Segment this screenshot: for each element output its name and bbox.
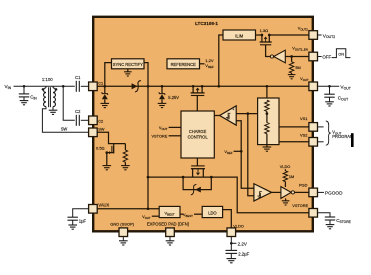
svg-text:PROGRAM: PROGRAM [332,134,354,139]
wire A1 bottom input [236,121,254,189]
net label 1.2V VREF [205,58,214,69]
pin VS2 [309,138,318,147]
ground below SYNC RECTIFY [124,72,132,76]
wire CSTORE to ground [329,220,331,225]
pin GND label [110,221,134,226]
wire VOUT2 pin out [318,34,322,36]
transformer T1 phase dots [42,88,58,91]
transistor Q4 value 0.5ohm [96,145,105,150]
pin C2 [89,116,98,125]
ground below EXPOSED PAD pin [166,241,175,245]
svg-text:C1: C1 [75,75,81,80]
svg-text:1µF: 1µF [79,218,87,223]
wire Q1 gate to charge control [196,96,198,112]
ground below 2.2uF [227,259,237,263]
svg-text:VLDO: VLDO [280,164,291,169]
pin SW [89,128,98,137]
svg-text:C2: C2 [75,109,81,114]
svg-text:CHARGE: CHARGE [189,129,207,134]
wire VIN to C1 cap [14,85,75,87]
transistor Q3 charge switch [191,158,205,177]
net label VOUT2 (outside) [323,33,335,39]
pin VSTORE label [292,203,308,208]
pin EXPOSED PAD (DFN) [166,228,175,237]
transistor Q2 value 1.3ohm [260,28,269,33]
wire VBEST to LDO [194,213,202,215]
wire VOUT input stub [169,126,181,128]
wire divider tap to VS2 pin [279,141,309,143]
net label VLDO pullup [280,164,291,169]
capacitor CSTORE label [336,218,351,224]
svg-text:VS2: VS2 [300,132,307,137]
pin VAUX label [98,203,109,208]
svg-text:OFF: OFF [322,55,331,60]
signal label OFF [322,55,331,60]
pin C1 label [98,81,103,86]
transistor Q2 1.3ohm PMOS [260,34,272,45]
wire C1 cap to C1 pin [81,85,89,87]
net label 2.2V [238,241,247,246]
ground below U3 [282,201,290,205]
wire primary bottom to SW pin [42,107,88,133]
node vaux junction long vertical [147,207,150,210]
resistor R3 label 5M [295,65,300,70]
wire rail to divider [266,86,268,100]
net label VREF [224,149,232,155]
ground below COUT [325,102,334,106]
ground below 5M resistor [288,75,296,79]
node A1 top input junction [246,112,249,115]
capacitor 2.2uF label [238,252,249,257]
node junction long vertical y177 [147,176,150,179]
svg-text:LTC3108-1: LTC3108-1 [195,21,218,26]
wire GND pin lead [122,237,124,241]
wire Q2 drain to VOUT2 pin [269,34,309,36]
block CHARGE CONTROL [181,111,214,158]
svg-text:PGOOD: PGOOD [325,191,343,196]
svg-text:ON: ON [338,53,344,57]
node VLDO 2.2V junction [230,242,233,245]
resistor R4 label 1M [289,174,294,179]
node VIN junction (CIN tap) [23,85,26,88]
node 5M junction [290,55,293,58]
wire VOUT2_EN pin to inverter [285,56,309,58]
wire COUT lead [329,86,331,94]
pin VS1 label [300,116,307,121]
node rail junction long vertical [147,85,150,88]
wire CIN lead [23,86,25,94]
node charge loop right [210,176,213,179]
diode D3 bypass [191,184,201,195]
svg-text:2.2µF: 2.2µF [238,252,249,257]
signal waveform ON pulse [332,49,351,58]
pin PGD label [299,182,308,187]
resistor R5 snubber [123,150,127,166]
resistor R3 5M [289,57,293,75]
IC outline LTC3108-1 main block [93,17,313,232]
wire VSTORE input stub [169,135,181,137]
node rail junction at zener D2 [161,85,164,88]
svg-text:VSTORE: VSTORE [151,134,167,139]
transformer T1 core [49,87,51,107]
wire A1 top input to divider [236,113,267,115]
ground below GND pin [119,241,128,245]
wire COUT to ground [329,97,331,102]
wire vstore route [211,177,309,213]
wire VBEST output stub [180,213,184,215]
capacitor COUT label [338,96,348,102]
svg-text:0.5Ω: 0.5Ω [96,145,105,150]
capacitor C2 label [75,109,81,114]
pin VOUT2 [309,31,318,40]
svg-text:5.25V: 5.25V [168,95,179,100]
wire VSTORE pin out [318,213,330,217]
charge control input VSTORE label [151,134,167,139]
wire PGD pin out [318,191,324,193]
wire A2 output to inverter U3 [272,191,281,193]
pin VLDO label [233,223,244,228]
capacitor CSTORE [325,217,335,220]
brace VOUT program [326,121,331,145]
svg-text:SW: SW [61,127,68,132]
transistor Q4 0.5ohm switch [105,144,113,166]
wire VAUX pin to VBEST [97,208,159,210]
ground below zener D1 [101,103,110,107]
wire Q2 gate to inverter U2 [266,45,271,57]
svg-text:ILIM: ILIM [235,33,244,38]
wire A1 output to charge control [214,115,219,117]
node charge loop left [182,176,185,179]
wire divider tap to PGD comparator [248,114,254,196]
wire label SW (outside) [61,127,68,132]
wire secondary bottom to ground [52,107,54,111]
capacitor CIN value label [30,95,37,101]
block LDO [202,206,222,217]
pin VLDO [227,228,236,237]
svg-text:GND (SSOP): GND (SSOP) [110,221,134,226]
pin C1 [89,82,98,91]
wire charge rail y177 [148,176,211,178]
node rail junction divider [266,85,269,88]
pin EXPOSED PAD label [147,221,190,226]
block SYNC RECTIFY [112,59,145,69]
wire main VAUX rail [97,85,309,87]
wire VAUX pin out [73,209,89,217]
net label VOUT into VBEST [142,214,151,220]
svg-text:VLDO: VLDO [233,223,244,228]
ideal diode switch on rail [132,81,141,92]
wire C2 branch [63,86,75,120]
wire diode bypass loop [183,177,211,190]
wire reference output stub [200,63,205,65]
wire CIN to ground [23,97,25,101]
zener D2 value 5.25V [168,95,179,100]
ground below Q4 [103,166,112,170]
node VOUT outside junction [328,85,331,88]
net label PGOOD [325,191,343,196]
svg-text:5M: 5M [295,65,300,70]
block resistor divider VOUT program [258,98,279,145]
wire sync rectify ground stub [127,69,129,72]
artifact cursor bar [351,133,354,147]
wire VLDO pin lead [230,237,232,251]
pin VS2 label [300,132,307,137]
ground below zener D2 [158,103,167,107]
zener diode D2 5.25V [159,86,165,103]
wire VS2 pin out [318,141,324,143]
op-amp A2 power good comparator [254,184,272,201]
inverter U2 vout2 enable [270,50,285,63]
wire sync rectify right leg [144,63,148,87]
wire U3 ground stub [285,198,287,200]
svg-text:1M: 1M [289,174,294,179]
node VREF junction [240,150,243,153]
wire divider middle [266,111,268,122]
ground below 1uF [68,225,77,229]
svg-text:VAUX: VAUX [98,203,109,208]
svg-text:C2: C2 [98,118,103,123]
wire U3 to PGD pin [295,191,310,193]
wire VOUT pin out [318,85,340,87]
wire LDO to VLDO pin [223,210,232,228]
block VBEST selector [159,206,180,217]
svg-text:PGD: PGD [299,182,308,187]
wire 2.2uF to ground [230,253,232,258]
svg-text:1:100: 1:100 [42,77,53,82]
wire C2 cap to C2 pin [81,119,89,121]
inverter U3 pgood driver [281,187,295,199]
net label VOUT (outside) [340,85,351,91]
pin VOUT2 label [298,25,309,31]
wire ILIM to Q2 [256,34,262,36]
wire SW pin to Q4 [97,132,125,143]
pin VS1 [309,123,318,132]
node C2 branch junction [62,85,65,88]
wire EXPOSED PAD lead [169,237,171,241]
pin VOUT2_EN [309,52,318,61]
capacitor C2 (external) [76,115,79,126]
wire 1uF to ground [72,220,74,225]
pin VAUX [89,205,98,214]
ground below CIN [20,101,29,105]
wire VOUT stub to VBEST [152,215,159,217]
svg-text:EXPOSED PAD (DFN): EXPOSED PAD (DFN) [147,221,190,226]
op-amp A1 hysteresis comparator [220,106,237,125]
resistor R2 divider lower [265,123,269,134]
wire divider tap to VS1 pin [279,126,309,128]
svg-text:LDO: LDO [208,211,216,216]
capacitor 1uF label [79,218,87,223]
capacitor COUT [324,94,334,97]
wire 2.2V stub [231,242,236,244]
pin C2 label [98,118,103,123]
capacitor 2.2uF [226,250,238,253]
wire long vertical C1-to-VAUX [147,86,149,209]
pin VOUT label [300,76,309,82]
wire ILIM left to rail [219,35,223,86]
block ILIM [223,30,256,40]
IC label LTC3108-1 [195,21,218,26]
pin GND (SSOP) [119,228,128,237]
svg-text:C1: C1 [98,81,103,86]
node divider tap [266,112,269,115]
wire divider bottom to ground [266,134,268,147]
pin PGD [309,188,318,197]
transformer T1 primary winding [44,86,46,106]
node rail junction at zener D1 [103,85,106,88]
transformer T1 ratio label 1:100 [42,77,53,82]
capacitor C1 (external) [76,81,79,92]
block REFERENCE [167,59,200,69]
svg-text:VSTORE: VSTORE [292,203,308,208]
charge control input VOUT label [159,125,168,131]
pin VOUT2_EN label [292,45,308,51]
pin SW label [98,126,105,131]
pin VSTORE [309,209,318,218]
svg-text:REFERENCE: REFERENCE [171,62,197,67]
ground below divider [263,147,272,151]
wire Q4 drain branch to R5 [124,144,126,150]
transistor Q1 vaux switch [191,85,205,96]
svg-text:1.3Ω: 1.3Ω [260,28,269,33]
capacitor 1uF on VAUX [68,217,78,220]
ground below secondary [49,110,58,114]
resistor R4 1M pullup [283,169,287,187]
node VIN label [5,84,12,90]
svg-text:VS1: VS1 [300,116,307,121]
node rail junction reference-ilim [217,85,220,88]
capacitor C1 label [75,75,81,80]
ground below CSTORE [326,225,335,229]
net label VOUT PROGRAM [332,130,354,140]
svg-text:CONTROL: CONTROL [188,135,209,140]
zener diode D1 on rail [102,86,108,103]
svg-text:SYNC RECTIFY: SYNC RECTIFY [113,62,143,67]
wire VS1 pin out [318,126,324,128]
ground below R5 [121,166,130,170]
wire VREF stub [234,150,242,152]
wire VOUT2_EN pin out [318,56,322,58]
svg-text:2.2V: 2.2V [238,241,247,246]
svg-text:SW: SW [98,126,105,131]
transformer T1 secondary winding [53,86,55,106]
net label VBEST [183,212,193,218]
capacitor CIN [19,94,29,97]
resistor R1 divider upper [265,100,269,111]
pin VOUT [309,82,318,91]
wire sync rectify left leg [105,63,112,87]
svg-text:+: + [232,108,234,112]
